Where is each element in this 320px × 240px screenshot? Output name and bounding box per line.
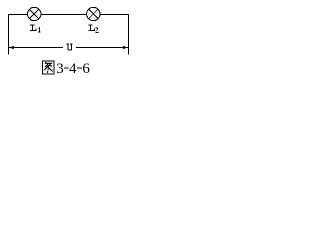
label L2	[88, 25, 98, 33]
voltage dimension line right segment	[76, 47, 128, 49]
voltage dimension arrowhead right	[123, 46, 127, 49]
svg-text:4: 4	[69, 61, 77, 77]
svg-text:3: 3	[56, 61, 64, 77]
wire top right segment	[100, 14, 129, 16]
caption hyphen 2	[77, 67, 82, 68]
caption glyph 图	[43, 61, 55, 74]
voltage dimension arrowhead left	[10, 46, 14, 49]
lamp L2	[87, 7, 100, 20]
svg-text:6: 6	[82, 61, 90, 77]
label U	[66, 43, 72, 50]
wire right vertical	[128, 14, 130, 55]
caption hyphen 1	[64, 67, 69, 68]
lamp L1	[28, 7, 41, 20]
wire top middle segment	[41, 14, 87, 16]
wire left vertical	[8, 14, 10, 55]
wire top left segment	[8, 14, 28, 16]
voltage dimension line left segment	[9, 47, 63, 49]
label L1	[30, 25, 41, 33]
